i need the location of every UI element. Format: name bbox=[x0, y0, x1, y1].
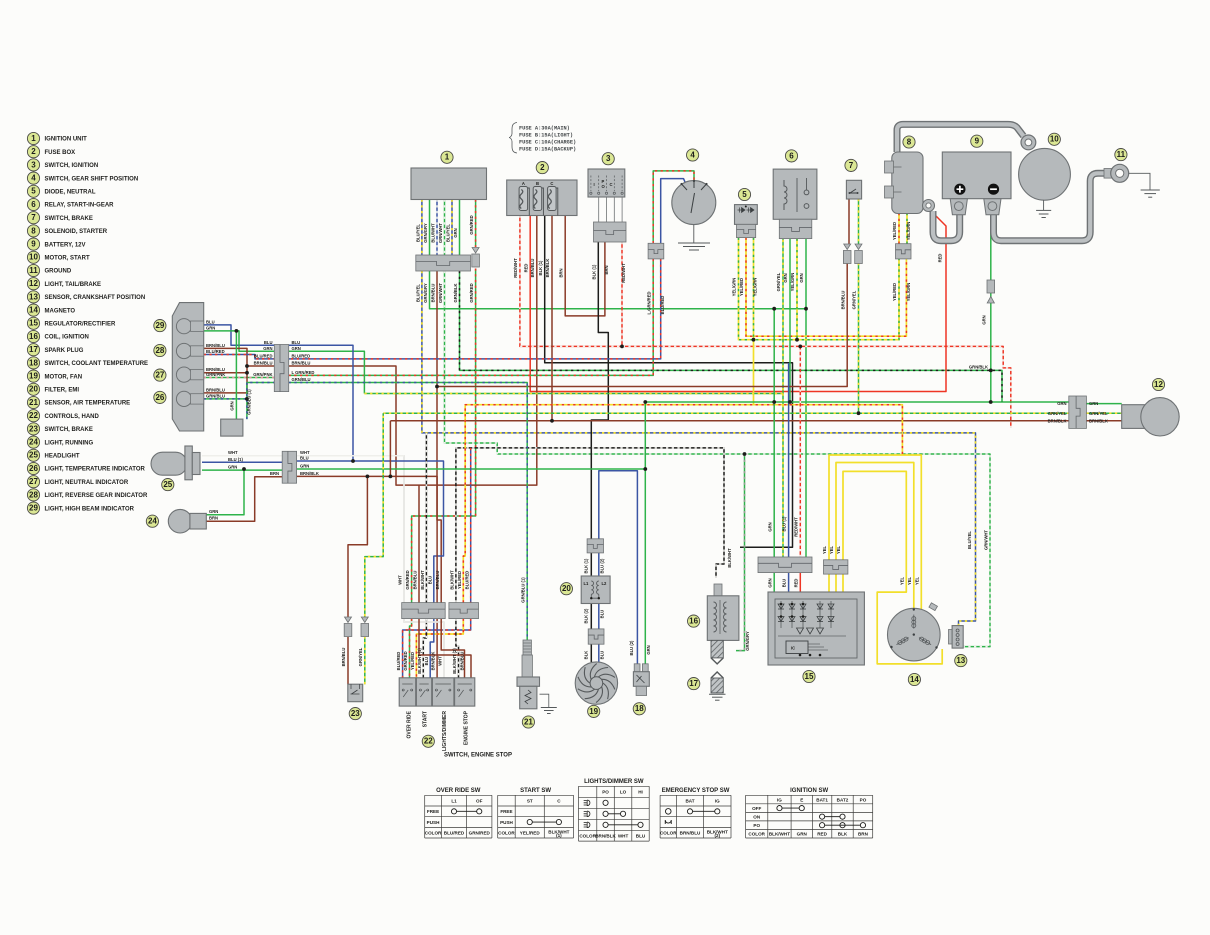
svg-text:4: 4 bbox=[690, 150, 695, 159]
label circle 5 bbox=[738, 188, 750, 200]
svg-text:BAT: BAT bbox=[685, 798, 694, 803]
wire YEL/GRN diode drop bbox=[753, 238, 755, 340]
svg-text:11: 11 bbox=[29, 266, 38, 275]
svg-text:C: C bbox=[610, 182, 613, 187]
svg-text:GRN/BLU (1): GRN/BLU (1) bbox=[521, 577, 526, 603]
svg-text:MAGNETO: MAGNETO bbox=[45, 308, 76, 314]
svg-text:GRN/BLK: GRN/BLK bbox=[453, 283, 458, 302]
svg-text:IGNITION UNIT: IGNITION UNIT bbox=[45, 137, 88, 143]
svg-text:BLU/RED: BLU/RED bbox=[464, 571, 469, 590]
svg-text:23: 23 bbox=[29, 424, 38, 433]
svg-text:GRN/RED: GRN/RED bbox=[403, 651, 408, 670]
svg-text:GRN/BLK: GRN/BLK bbox=[969, 364, 988, 369]
connector headlight bbox=[282, 451, 296, 483]
switch name labels bbox=[407, 710, 470, 751]
svg-text:29: 29 bbox=[29, 504, 38, 513]
wire L.GRN/RED to key switch bbox=[653, 171, 694, 243]
switch coolant temperature 18 bbox=[633, 664, 649, 696]
svg-text:YEL/GRN: YEL/GRN bbox=[753, 278, 758, 297]
svg-text:L2: L2 bbox=[602, 581, 608, 586]
svg-text:BRN/BLK: BRN/BLK bbox=[300, 471, 319, 476]
ground under starter bbox=[1036, 210, 1051, 217]
wire BLU regulator lead bbox=[788, 573, 790, 601]
switch brake 7 bbox=[846, 180, 861, 199]
svg-text:FUSE C:10A(CHARGE): FUSE C:10A(CHARGE) bbox=[519, 140, 576, 146]
svg-text:16: 16 bbox=[689, 617, 698, 626]
ground ring terminal 11 bbox=[1104, 164, 1150, 190]
svg-text:GRN/GRY: GRN/GRY bbox=[745, 631, 750, 651]
svg-text:22: 22 bbox=[29, 411, 38, 420]
svg-text:OFF: OFF bbox=[752, 806, 761, 811]
wire BLK(1) filter top bbox=[590, 553, 592, 576]
wire BLU(2) branch to coolant switch bbox=[599, 471, 638, 664]
svg-text:RED: RED bbox=[794, 579, 799, 588]
svg-text:SWITCH, ENGINE STOP: SWITCH, ENGINE STOP bbox=[444, 753, 512, 759]
svg-text:WHT: WHT bbox=[300, 450, 310, 455]
svg-text:BRN/BLK: BRN/BLK bbox=[1089, 418, 1108, 423]
svg-text:25: 25 bbox=[29, 451, 38, 460]
wire BRN/BLU reverse indicator bbox=[204, 348, 275, 366]
svg-text:10: 10 bbox=[1050, 135, 1059, 144]
wire BRN/BLK bus to tail light bbox=[390, 420, 1068, 422]
wire GRN ignition-unit pin6 bbox=[459, 200, 461, 256]
wire BRN/BLK riser to tail bus bbox=[389, 421, 391, 477]
svg-text:LIGHT, TEMPERATURE INDICATOR: LIGHT, TEMPERATURE INDICATOR bbox=[45, 467, 146, 473]
wire GRN/RED ignition-unit to over-ride switch bbox=[412, 200, 476, 603]
svg-text:RED/WHT: RED/WHT bbox=[621, 263, 626, 283]
svg-text:1: 1 bbox=[445, 153, 450, 162]
wire YEL regulator leads bbox=[829, 574, 843, 596]
battery 12V 9 bbox=[942, 152, 1011, 215]
svg-text:BLU/RED: BLU/RED bbox=[660, 296, 665, 315]
label circle 1 bbox=[441, 151, 453, 163]
svg-text:RED: RED bbox=[938, 254, 943, 263]
wire GRN/YEL brake-switch drop bbox=[858, 199, 860, 413]
svg-text:9: 9 bbox=[31, 240, 36, 249]
svg-text:FUSE A:30A(MAIN): FUSE A:30A(MAIN) bbox=[519, 126, 570, 132]
svg-text:COIL, IGNITION: COIL, IGNITION bbox=[45, 335, 89, 341]
svg-text:BLK: BLK bbox=[838, 832, 848, 837]
svg-text:MOTOR, START: MOTOR, START bbox=[45, 256, 90, 262]
svg-text:YEL/RED: YEL/RED bbox=[457, 571, 462, 589]
svg-text:GRN: GRN bbox=[1057, 401, 1066, 406]
svg-text:BLU/YEL: BLU/YEL bbox=[445, 224, 450, 242]
motor fan 19 bbox=[575, 662, 617, 704]
svg-text:WHT: WHT bbox=[438, 656, 443, 666]
svg-text:23: 23 bbox=[351, 709, 360, 718]
wire BLU(2) filter top bbox=[598, 553, 600, 576]
svg-text:19: 19 bbox=[29, 372, 38, 381]
svg-text:1: 1 bbox=[31, 134, 36, 143]
svg-text:YEL: YEL bbox=[915, 576, 920, 585]
switch brake 23 bbox=[348, 684, 363, 702]
wire BLU/YEL ignition-unit to crank-sensor bbox=[422, 200, 976, 626]
svg-text:FUSE BOX: FUSE BOX bbox=[45, 150, 76, 156]
wire BRN fuse to ignition-switch-conn bbox=[565, 216, 605, 316]
junction dots bbox=[235, 307, 993, 478]
connector under gear switch bbox=[594, 222, 627, 242]
svg-text:PUSH: PUSH bbox=[500, 820, 513, 825]
wire GRN bus to tail light bbox=[645, 401, 1069, 403]
svg-text:IG: IG bbox=[715, 798, 720, 803]
svg-text:YEL: YEL bbox=[836, 545, 841, 554]
wire GRN/BLU(1) cluster lead bbox=[247, 383, 274, 420]
connector regulator harness bbox=[758, 557, 812, 573]
svg-text:BRN/BLU: BRN/BLU bbox=[840, 291, 845, 310]
wire BRN/BLU brake-switch drop bbox=[437, 199, 849, 387]
wire GRN/GRY ignition-unit to relay bbox=[430, 200, 807, 558]
svg-text:BLU (2): BLU (2) bbox=[600, 558, 605, 573]
svg-text:7: 7 bbox=[31, 213, 36, 222]
svg-text:GRN/YEL: GRN/YEL bbox=[358, 647, 363, 666]
svg-text:SWITCH, IGNITION: SWITCH, IGNITION bbox=[45, 163, 99, 169]
svg-text:BRN/BLU: BRN/BLU bbox=[530, 259, 535, 278]
svg-text:OVER RIDE SW: OVER RIDE SW bbox=[436, 788, 481, 794]
label circle 26 bbox=[154, 391, 166, 403]
connector magneto yellow leads bbox=[824, 560, 848, 574]
svg-text:10: 10 bbox=[29, 253, 38, 262]
svg-text:GRN/GRY: GRN/GRY bbox=[423, 283, 428, 303]
controls hand 22 connectors bbox=[402, 603, 446, 619]
wire GRN tail light pigtail bbox=[1086, 403, 1121, 405]
bullet connector on battery green wire bbox=[987, 280, 995, 303]
label circle 7 bbox=[845, 159, 857, 171]
svg-text:SWITCH, BRAKE: SWITCH, BRAKE bbox=[45, 427, 93, 433]
wire RED/WHT regulator charge wire bbox=[799, 346, 801, 557]
svg-text:BLU (1): BLU (1) bbox=[228, 457, 243, 462]
svg-text:PO: PO bbox=[860, 797, 867, 802]
svg-text:BLU/RED: BLU/RED bbox=[396, 652, 401, 671]
svg-text:18: 18 bbox=[635, 704, 644, 713]
ground under spark plug bbox=[709, 694, 726, 700]
wire BRN/BLU ignition-unit to hand-controls bbox=[437, 271, 441, 603]
wire BLU cluster to headlight bbox=[289, 345, 353, 461]
svg-text:LIGHTS/DIMMER SW: LIGHTS/DIMMER SW bbox=[584, 779, 644, 785]
wire BLK(1) fuse bus bbox=[545, 216, 793, 548]
label circle 17 bbox=[688, 678, 700, 690]
wire labels bbox=[415, 215, 986, 324]
svg-text:PO: PO bbox=[753, 823, 760, 828]
label circle 9 bbox=[971, 135, 983, 147]
svg-text:14: 14 bbox=[910, 675, 919, 684]
wire BLK/WHT kill wire a bbox=[425, 433, 427, 603]
svg-text:BRN/BLK: BRN/BLK bbox=[545, 259, 550, 278]
svg-text:BLK (1): BLK (1) bbox=[592, 264, 597, 279]
wire GRN/PNK neutral indicator bbox=[204, 377, 275, 379]
svg-text:BLK/WHT (1): BLK/WHT (1) bbox=[417, 648, 422, 674]
wire YEL magneto phase 1 bbox=[829, 455, 921, 609]
svg-text:BRN/BLU: BRN/BLU bbox=[341, 648, 346, 667]
svg-text:EMERGENCY STOP SW: EMERGENCY STOP SW bbox=[662, 788, 730, 794]
light running 24 bbox=[168, 509, 206, 533]
svg-text:GRN/WHT: GRN/WHT bbox=[983, 530, 988, 550]
svg-text:8: 8 bbox=[907, 137, 912, 146]
diode and bullet on GRN/RED wire bbox=[472, 248, 480, 268]
svg-text:WHT: WHT bbox=[618, 834, 629, 839]
ground under key switch bbox=[678, 243, 710, 250]
svg-text:28: 28 bbox=[155, 346, 164, 355]
svg-text:YEL: YEL bbox=[900, 576, 905, 585]
wire GRN headlight common bus bbox=[297, 468, 646, 470]
table lights dimmer switch bbox=[579, 779, 650, 841]
label circle 10 bbox=[1048, 133, 1060, 145]
svg-text:YEL/GRN: YEL/GRN bbox=[906, 222, 911, 241]
svg-text:BAT1: BAT1 bbox=[816, 797, 828, 802]
svg-text:FUSE D:15A(BACKUP): FUSE D:15A(BACKUP) bbox=[519, 147, 576, 153]
filter EMI 20 bbox=[581, 576, 610, 604]
label circle 18 bbox=[633, 703, 645, 715]
wire GRN/YEL rear brake switch bbox=[365, 413, 383, 684]
wire BRN/BLU fuse to cluster/controls bbox=[289, 216, 537, 603]
svg-text:BRN/BLU: BRN/BLU bbox=[680, 831, 701, 836]
wire RED regulator lead bbox=[799, 573, 801, 601]
wire GRN column to coolant switch bbox=[644, 402, 646, 664]
svg-text:RED/WHT: RED/WHT bbox=[513, 258, 518, 278]
svg-text:WHT: WHT bbox=[398, 575, 403, 585]
svg-text:BLU: BLU bbox=[782, 579, 787, 588]
svg-text:15: 15 bbox=[805, 672, 814, 681]
label circle 13 bbox=[955, 655, 967, 667]
svg-text:BRN: BRN bbox=[558, 268, 563, 277]
wire GRN/GRY to ignition coil bbox=[736, 454, 745, 651]
cluster ground box bbox=[221, 419, 243, 436]
svg-text:GRN: GRN bbox=[797, 832, 808, 837]
svg-text:LIGHT, HIGH BEAM INDICATOR: LIGHT, HIGH BEAM INDICATOR bbox=[45, 506, 135, 512]
sensor air temperature 21 bbox=[517, 640, 549, 709]
svg-text:RED: RED bbox=[523, 264, 528, 273]
connector for key switch harness bbox=[648, 243, 664, 259]
legend list of numbered component names bbox=[27, 132, 148, 514]
svg-text:GRN/YEL: GRN/YEL bbox=[1089, 411, 1108, 416]
svg-text:BLU (2): BLU (2) bbox=[629, 640, 634, 655]
ring terminal on solenoid positive post bbox=[923, 200, 935, 212]
svg-text:27: 27 bbox=[155, 371, 164, 380]
svg-text:START: START bbox=[423, 711, 429, 727]
svg-text:GRN/BLU (1): GRN/BLU (1) bbox=[247, 389, 252, 415]
svg-text:BLU/WHT: BLU/WHT bbox=[430, 223, 435, 243]
svg-text:BLK (1): BLK (1) bbox=[584, 558, 589, 573]
svg-text:LIGHT, REVERSE GEAR INDICATOR: LIGHT, REVERSE GEAR INDICATOR bbox=[45, 493, 148, 499]
svg-text:MOTOR, FAN: MOTOR, FAN bbox=[45, 374, 83, 380]
wire BLK/WHT(2) to engine stop bbox=[456, 619, 459, 678]
svg-text:2: 2 bbox=[540, 163, 545, 172]
svg-text:ST: ST bbox=[527, 798, 533, 803]
connector for tail light bbox=[1069, 396, 1087, 428]
svg-text:OF: OF bbox=[476, 798, 483, 803]
svg-text:ENGINE STOP: ENGINE STOP bbox=[463, 710, 469, 745]
svg-text:BLK (2): BLK (2) bbox=[584, 608, 589, 623]
svg-text:GRN: GRN bbox=[783, 273, 788, 282]
diode neutral 5 bbox=[735, 205, 758, 225]
svg-text:BLU/RED: BLU/RED bbox=[444, 831, 465, 836]
wire WHT to dimmer switch core bbox=[404, 619, 444, 678]
svg-text:COLOR: COLOR bbox=[748, 832, 765, 837]
label circle 22 bbox=[422, 735, 434, 747]
wire BRN/BLK tail light pigtail bbox=[1086, 420, 1121, 422]
wire BLU/RED reverse indicator bbox=[204, 355, 275, 359]
wire BRN/BLU to engine stop b bbox=[419, 619, 471, 678]
wire WHT to dimmer switch bbox=[404, 619, 444, 678]
svg-text:GROUND: GROUND bbox=[45, 269, 72, 275]
svg-text:GRN: GRN bbox=[646, 645, 651, 654]
fuse table text block bbox=[509, 123, 576, 154]
svg-text:CONTROLS, HAND: CONTROLS, HAND bbox=[45, 414, 100, 420]
svg-text:A: A bbox=[522, 181, 525, 186]
label circle 6 bbox=[785, 150, 797, 162]
svg-text:GRN: GRN bbox=[263, 346, 272, 351]
wire GRN regulator lead bbox=[773, 573, 775, 601]
wire GRN high-beam indicator bbox=[204, 331, 275, 351]
wire YEL/RED to start switch bbox=[416, 619, 463, 678]
svg-text:YEL/GRN: YEL/GRN bbox=[732, 278, 737, 297]
svg-text:BRN: BRN bbox=[604, 265, 609, 274]
solenoid starter 8 bbox=[885, 152, 924, 214]
svg-text:IC: IC bbox=[791, 646, 795, 651]
label circle 24 bbox=[146, 515, 158, 527]
table over ride switch bbox=[425, 788, 492, 838]
svg-text:BRN: BRN bbox=[858, 832, 869, 837]
sensor crankshaft position 13 bbox=[949, 626, 964, 649]
magneto 14 bbox=[888, 603, 941, 661]
label circle 21 bbox=[522, 716, 534, 728]
svg-text:4: 4 bbox=[31, 174, 36, 183]
wire YEL/GRN solenoid lead bbox=[906, 213, 908, 244]
svg-text:IG: IG bbox=[777, 797, 782, 802]
wire BRN/BLU to engine stop bbox=[441, 619, 464, 678]
svg-text:BLK/WHT (2): BLK/WHT (2) bbox=[452, 648, 457, 674]
svg-text:GRN/YEL: GRN/YEL bbox=[776, 272, 781, 291]
switch gear shift position 3 bbox=[588, 169, 625, 222]
wire BLU/RED key switch to cluster bbox=[289, 259, 661, 359]
svg-text:BLU (1): BLU (1) bbox=[782, 516, 787, 531]
svg-text:12: 12 bbox=[1154, 380, 1163, 389]
svg-text:16: 16 bbox=[29, 332, 38, 341]
coil ignition 16 bbox=[707, 584, 739, 640]
svg-text:FREE: FREE bbox=[500, 809, 512, 814]
svg-text:12: 12 bbox=[29, 279, 38, 288]
svg-text:DIODE, NEUTRAL: DIODE, NEUTRAL bbox=[45, 190, 96, 196]
svg-text:GRN/WHT: GRN/WHT bbox=[438, 283, 443, 303]
svg-text:HEADLIGHT: HEADLIGHT bbox=[45, 454, 80, 460]
wire BLU to dimmer switch bbox=[430, 619, 434, 678]
svg-text:20: 20 bbox=[29, 385, 38, 394]
svg-text:PUSH: PUSH bbox=[427, 820, 440, 825]
wire RED/WHT gear-switch drop bbox=[621, 242, 623, 346]
label circle 14 bbox=[908, 673, 920, 685]
svg-text:SWITCH, GEAR SHIFT POSITION: SWITCH, GEAR SHIFT POSITION bbox=[45, 176, 139, 182]
svg-text:BLU/RED: BLU/RED bbox=[254, 354, 273, 359]
svg-text:SENSOR, AIR TEMPERATURE: SENSOR, AIR TEMPERATURE bbox=[45, 401, 131, 407]
ignition unit 1 bbox=[411, 168, 487, 200]
wire YEL drop to yellow bus bbox=[753, 340, 755, 405]
svg-text:14: 14 bbox=[29, 306, 38, 315]
svg-text:GRN/YEL: GRN/YEL bbox=[852, 290, 857, 309]
svg-text:BRN: BRN bbox=[270, 471, 279, 476]
svg-text:BLU: BLU bbox=[292, 340, 301, 345]
svg-text:PO: PO bbox=[602, 790, 609, 795]
instrument cluster panel with indicator bulbs 26-29 bbox=[172, 303, 203, 431]
label circle 27 bbox=[154, 369, 166, 381]
svg-text:GRN/PNK: GRN/PNK bbox=[206, 372, 225, 377]
svg-text:11: 11 bbox=[1117, 150, 1126, 159]
svg-text:28: 28 bbox=[29, 490, 38, 499]
svg-text:5: 5 bbox=[31, 187, 36, 196]
label circle 2 bbox=[536, 162, 548, 174]
svg-text:GRN: GRN bbox=[206, 325, 215, 330]
svg-text:RELAY, START-IN-GEAR: RELAY, START-IN-GEAR bbox=[45, 203, 115, 209]
wire L.GRN/RED key switch to cluster bbox=[289, 259, 654, 376]
svg-text:BRN/BLK: BRN/BLK bbox=[431, 652, 436, 671]
svg-text:COLOR: COLOR bbox=[579, 834, 596, 839]
wire GRN battery negative drop bbox=[990, 223, 992, 402]
svg-text:L1: L1 bbox=[584, 581, 590, 586]
svg-text:6: 6 bbox=[789, 151, 794, 160]
wire GRN cluster ground lead bbox=[235, 331, 237, 419]
svg-text:I: I bbox=[594, 182, 595, 187]
svg-text:ON: ON bbox=[753, 814, 761, 819]
label circle 25 bbox=[162, 479, 174, 491]
svg-text:L.GRN/RED: L.GRN/RED bbox=[646, 291, 651, 314]
svg-text:LIGHTS/DIMMER: LIGHTS/DIMMER bbox=[442, 711, 448, 751]
svg-text:LIGHT, NEUTRAL INDICATOR: LIGHT, NEUTRAL INDICATOR bbox=[45, 480, 129, 486]
svg-text:BAT2: BAT2 bbox=[837, 797, 849, 802]
svg-text:27: 27 bbox=[29, 477, 38, 486]
svg-text:BLU: BLU bbox=[600, 610, 605, 619]
table start switch bbox=[498, 788, 574, 838]
svg-text:20: 20 bbox=[562, 584, 571, 593]
label circle 3 bbox=[602, 153, 614, 165]
svg-text:7: 7 bbox=[849, 161, 854, 170]
headlight 25 bbox=[151, 446, 200, 480]
svg-text:29: 29 bbox=[155, 321, 164, 330]
wire GRN/RED to over-ride switch bbox=[410, 619, 412, 678]
svg-text:BLU/YEL: BLU/YEL bbox=[415, 224, 420, 242]
wire YEL magneto phase 3 bbox=[843, 471, 942, 664]
wire BLU/WHT ignition-unit pin3 bbox=[436, 200, 438, 256]
svg-text:RED: RED bbox=[817, 832, 827, 837]
svg-text:GRN: GRN bbox=[209, 509, 218, 514]
wire BLU/RED over-ride wire bbox=[470, 448, 472, 603]
regulator/rectifier 15 bbox=[768, 592, 864, 665]
wire BLK(1) gear-switch to EMI filter bbox=[591, 242, 608, 539]
label circle 15 bbox=[803, 670, 815, 682]
svg-text:21: 21 bbox=[29, 398, 38, 407]
wire YEL/GRN diode to solenoid bbox=[739, 238, 900, 340]
wire BLU filter to fan bbox=[598, 604, 600, 663]
svg-text:YEL/GRN: YEL/GRN bbox=[790, 273, 795, 292]
svg-text:BLK/WHT: BLK/WHT bbox=[769, 832, 790, 837]
svg-text:BLK (1): BLK (1) bbox=[538, 260, 543, 275]
svg-text:GRN: GRN bbox=[767, 522, 772, 531]
svg-text:GRN/BLU: GRN/BLU bbox=[206, 393, 225, 398]
svg-text:OVER RIDE: OVER RIDE bbox=[407, 710, 413, 738]
svg-text:COLOR: COLOR bbox=[660, 831, 677, 836]
svg-text:3: 3 bbox=[606, 154, 611, 163]
svg-text:BRN: BRN bbox=[209, 516, 218, 521]
wire BRN/BLU rear brake switch bbox=[348, 476, 367, 684]
svg-text:2: 2 bbox=[31, 147, 36, 156]
svg-text:BLU/RED: BLU/RED bbox=[292, 354, 311, 359]
svg-text:BRN/BLU: BRN/BLU bbox=[430, 284, 435, 303]
svg-text:BLK: BLK bbox=[584, 651, 589, 660]
svg-text:GRN/BLU: GRN/BLU bbox=[292, 377, 311, 382]
svg-text:SWITCH, BRAKE: SWITCH, BRAKE bbox=[45, 216, 93, 222]
svg-text:BLU: BLU bbox=[600, 651, 605, 660]
svg-text:BLU/YEL: BLU/YEL bbox=[967, 531, 972, 549]
label circle 29 bbox=[154, 320, 166, 332]
svg-text:24: 24 bbox=[148, 517, 157, 526]
wire GRN/YEL bus to tail light bbox=[383, 412, 1069, 414]
